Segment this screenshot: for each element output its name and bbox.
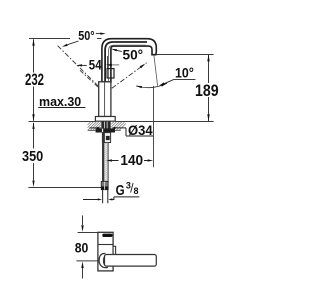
flexible hose xyxy=(103,143,109,182)
base flange xyxy=(95,117,115,122)
arrow on rotated spout line xyxy=(140,64,146,69)
189 arrow top xyxy=(207,55,209,62)
extension line from outlet to 189 xyxy=(156,54,213,56)
svg-text:350: 350 xyxy=(22,148,43,165)
lever ball xyxy=(99,254,108,268)
faucet body xyxy=(99,82,111,117)
body center line xyxy=(104,83,106,116)
countertop line right xyxy=(115,121,213,123)
hose end nut xyxy=(101,181,108,189)
50deg swivel leader arrow to elbow xyxy=(117,50,122,51)
locknut xyxy=(96,128,115,132)
80 dim bottom line xyxy=(76,260,97,262)
spout inner highlight line xyxy=(105,42,147,82)
dimension 232 arrow top xyxy=(32,39,34,46)
leader arrow 50deg to pipe xyxy=(96,32,101,34)
svg-text:189: 189 xyxy=(195,82,219,100)
outlet 10deg slant reference line xyxy=(154,55,158,86)
189 arrow bottom xyxy=(207,114,209,121)
svg-text:232: 232 xyxy=(25,71,44,89)
80 dim bottom arrow xyxy=(81,261,83,268)
swivel 50deg arc xyxy=(136,83,167,87)
faucet spout outline xyxy=(102,39,156,82)
54 right arrow over pipe xyxy=(106,64,112,66)
counter bottom line xyxy=(88,129,121,131)
80 dim top arrow xyxy=(82,215,84,225)
lever open-position dash-dot line 1 xyxy=(58,46,99,87)
dimension 140 xyxy=(106,159,112,161)
350 arrow bottom xyxy=(32,181,34,188)
leader arrow 50deg to lever dash line xyxy=(68,41,79,45)
svg-text:3: 3 xyxy=(126,181,131,191)
arc arrow left xyxy=(136,86,142,88)
dimension 232 line xyxy=(33,39,35,120)
dimension 350 line xyxy=(33,123,35,180)
10deg leader underline xyxy=(163,80,196,85)
G 3/8 arrows xyxy=(83,199,98,201)
svg-text:80: 80 xyxy=(75,240,89,256)
countertop line left xyxy=(29,121,96,123)
svg-text:54: 54 xyxy=(89,57,102,72)
supply fitting under counter xyxy=(102,133,110,143)
threaded shank xyxy=(101,121,110,128)
top extension line xyxy=(78,232,98,234)
arc arrow right xyxy=(161,83,167,86)
svg-text:50°: 50° xyxy=(123,48,144,63)
svg-text:50°: 50° xyxy=(78,29,94,43)
side tab xyxy=(113,246,116,254)
dimension 232 arrow bottom xyxy=(32,114,34,121)
svg-text:max.30: max.30 xyxy=(39,94,81,109)
bottom view body xyxy=(98,232,113,271)
connection tube xyxy=(103,190,108,204)
lever open-position dash-dot line 2 xyxy=(80,70,100,88)
faucet lever front view xyxy=(107,69,114,78)
54 left arrow xyxy=(82,64,87,66)
body top detail xyxy=(102,234,112,237)
body divider line xyxy=(98,244,113,246)
350 arrow top xyxy=(32,122,34,129)
extension line from outlet tip down xyxy=(153,86,155,167)
rotated spout dash-dot line xyxy=(112,63,147,89)
counter hatch left xyxy=(88,122,101,131)
dimension 232 extension line top xyxy=(29,38,102,40)
lever ball inner face xyxy=(103,256,105,266)
svg-text:8: 8 xyxy=(134,186,139,196)
350 bottom extension line xyxy=(28,187,102,189)
Ø34 arrows at shank xyxy=(89,127,97,129)
lever arm xyxy=(105,255,157,267)
counter hatch right xyxy=(111,122,126,130)
dimension 189 line xyxy=(208,55,210,121)
svg-text:140: 140 xyxy=(120,152,143,169)
